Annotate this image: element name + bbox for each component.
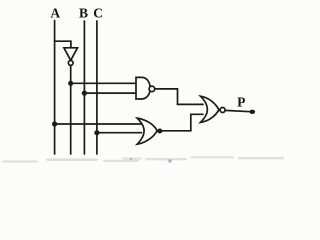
junction dot on inverter output xyxy=(68,81,73,86)
svg-text:A: A xyxy=(50,6,60,21)
NOR output bubble xyxy=(220,108,225,113)
inverter output bubble xyxy=(68,61,73,66)
svg-text:P: P xyxy=(237,94,245,109)
junction dot at OR output xyxy=(157,129,162,134)
wire: B to NAND bottom input xyxy=(84,92,136,94)
inverter (NOT gate) triangle xyxy=(64,48,78,61)
wire: A to OR top input xyxy=(55,123,142,125)
wire: NOR output to P xyxy=(225,110,250,111)
svg-text:B: B xyxy=(79,6,88,21)
wire: branch from A to inverter input xyxy=(55,41,71,47)
wire: OR output to NOR bottom input xyxy=(157,114,203,131)
wire: input line C vertical xyxy=(96,21,98,154)
node P terminal dot xyxy=(250,110,256,114)
OR gate U2 body xyxy=(137,118,157,144)
wire: inverter output to NAND top input xyxy=(71,82,137,84)
NAND gate U1 body xyxy=(136,77,150,99)
NOR gate U3 body xyxy=(201,96,219,122)
wire: C to OR bottom input xyxy=(97,132,142,134)
junction dot on line C xyxy=(94,130,99,135)
junction dot on line A xyxy=(52,121,57,126)
wire: NAND output to NOR top input xyxy=(155,89,203,105)
wire: input line A vertical xyxy=(54,21,56,155)
svg-text:C: C xyxy=(93,6,103,21)
wire: inverter output vertical xyxy=(70,66,72,155)
NAND output bubble xyxy=(149,86,155,92)
junction dot on line B xyxy=(82,91,87,96)
wire: input line B vertical xyxy=(83,21,85,154)
scan artifacts bottom xyxy=(2,156,284,162)
